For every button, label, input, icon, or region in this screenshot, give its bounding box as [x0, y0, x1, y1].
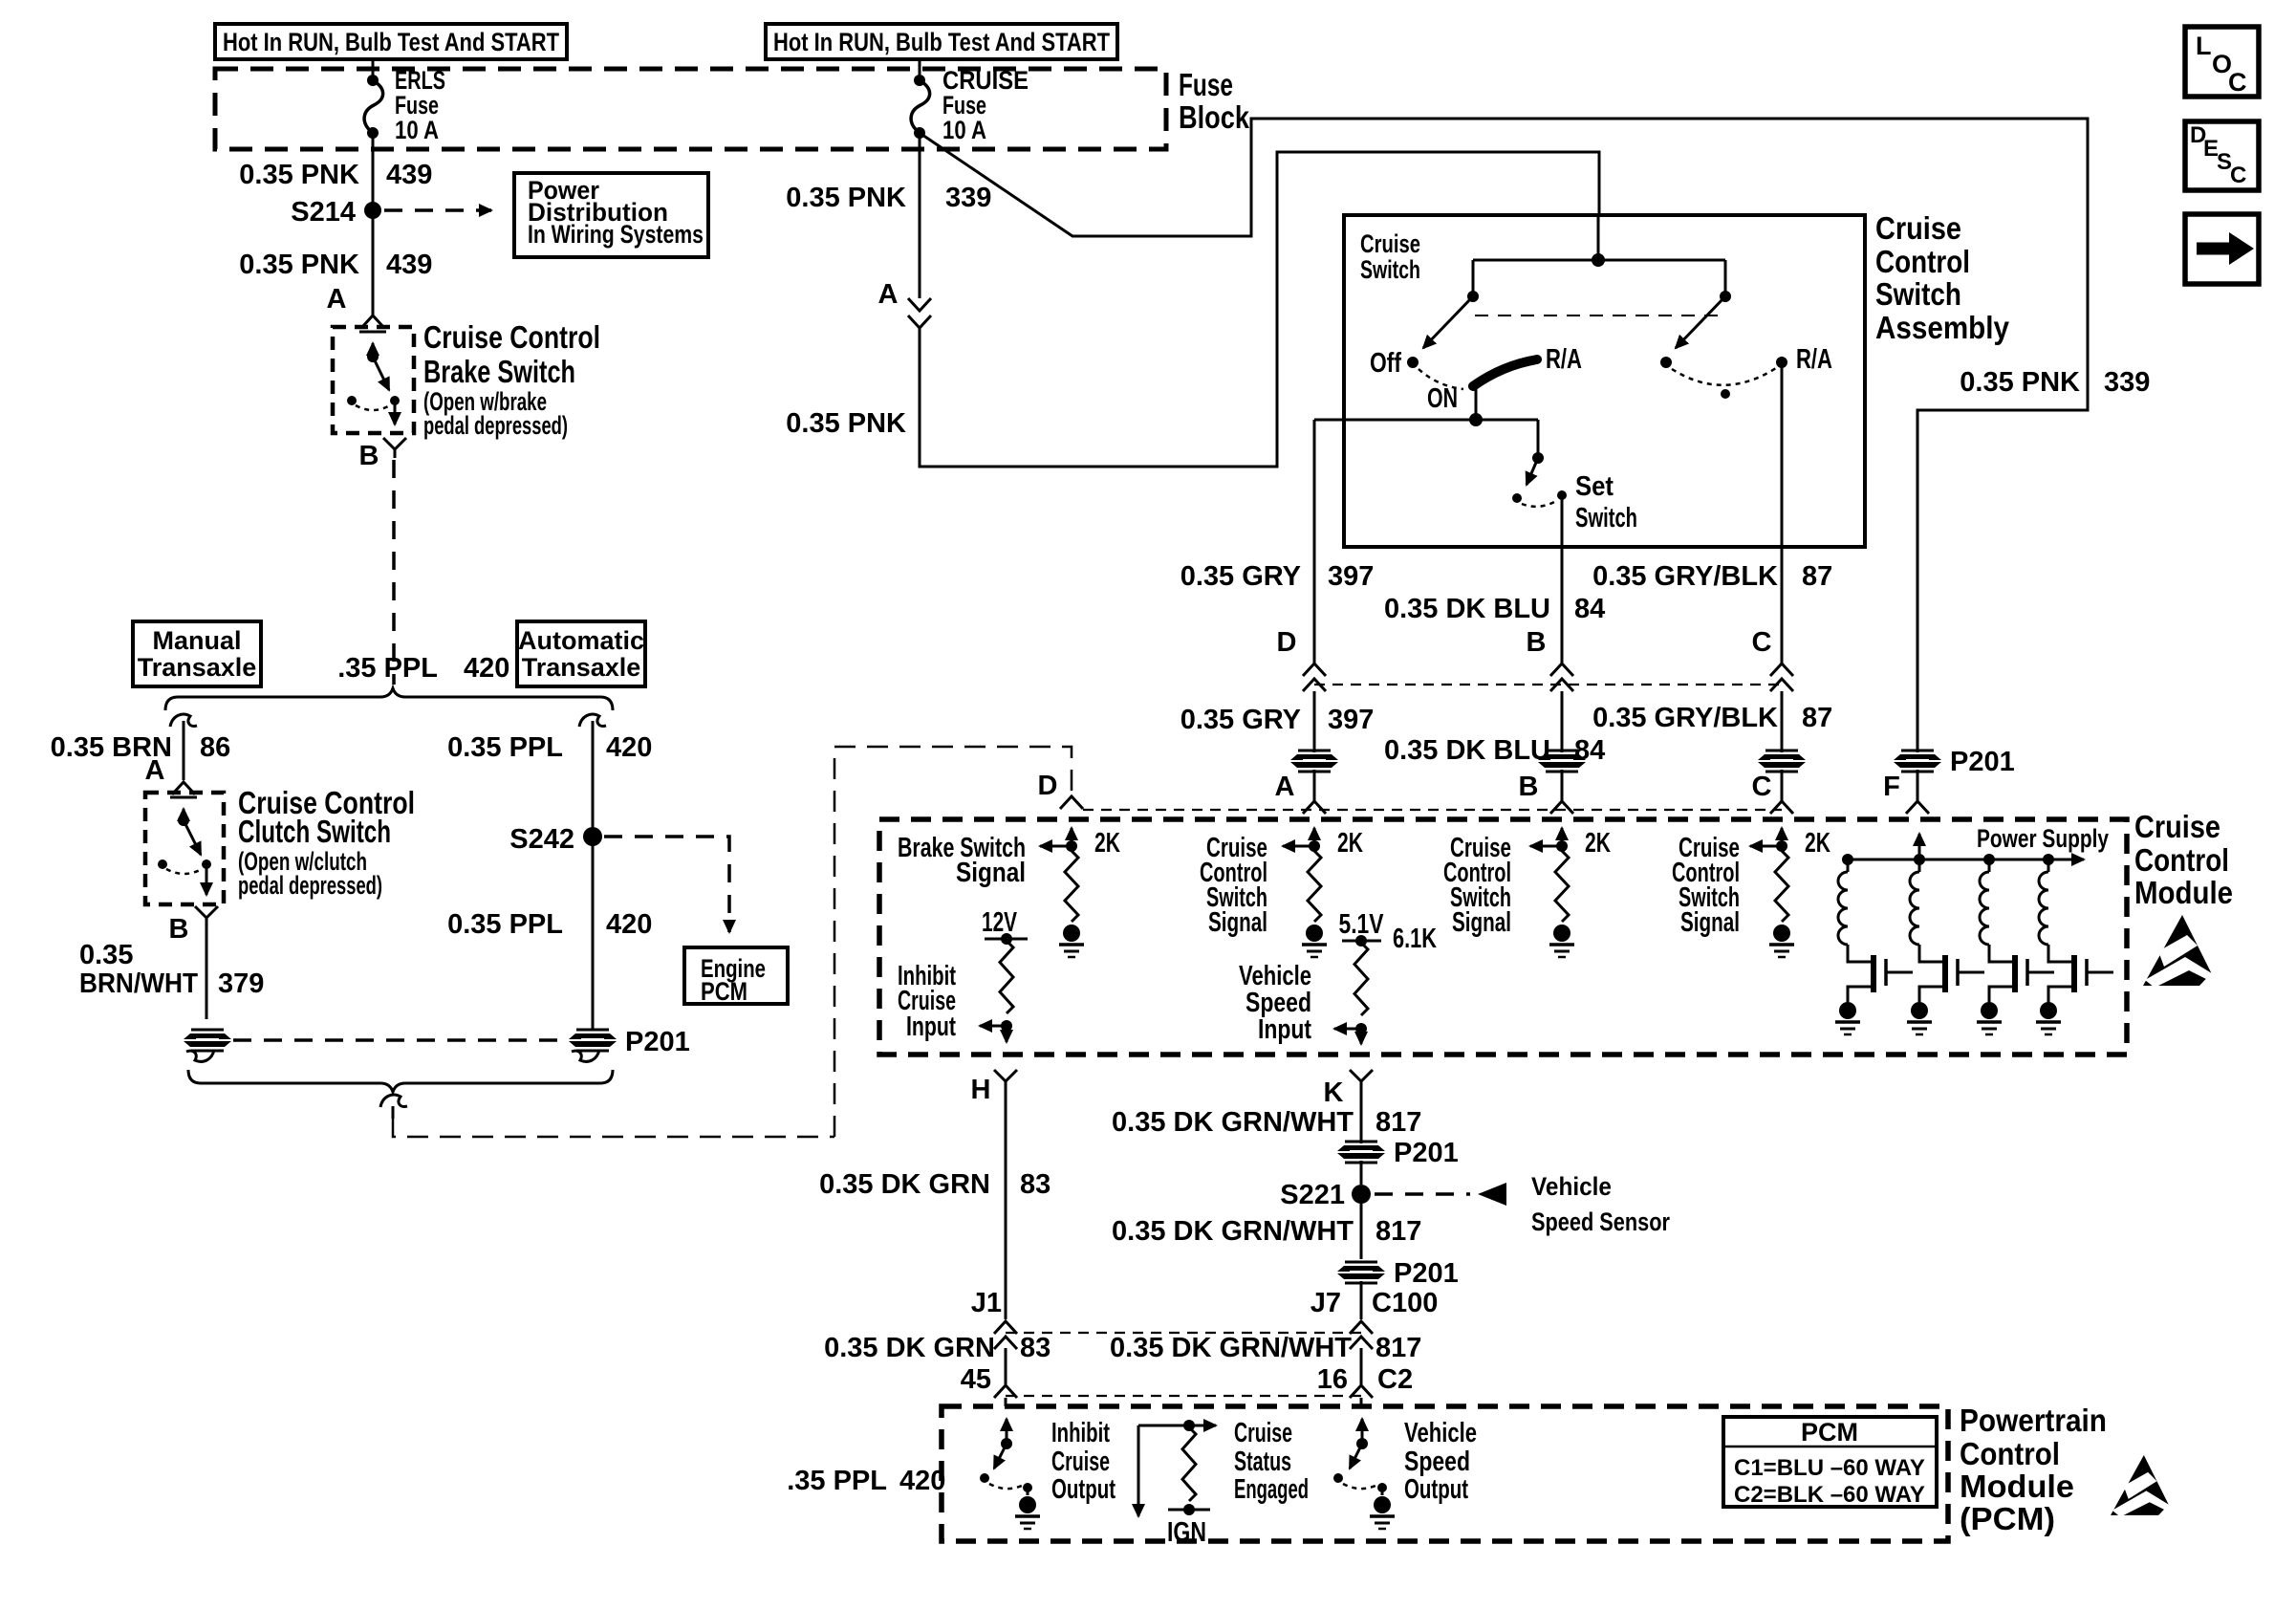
svg-text:Signal: Signal [1208, 907, 1267, 938]
svg-text:C2: C2 [1377, 1364, 1413, 1395]
svg-text:0.35 DK GRN/WHT: 0.35 DK GRN/WHT [1110, 1333, 1352, 1363]
svg-text:420: 420 [464, 653, 509, 684]
dashed wire S242 to Engine PCM [604, 837, 729, 932]
svg-text:Cruise: Cruise [1234, 1418, 1292, 1448]
connector P201 in K (1) [1337, 1142, 1385, 1163]
fuse block dashed box [215, 69, 1166, 149]
svg-text:Speed Sensor: Speed Sensor [1531, 1207, 1670, 1236]
connector P201 in K (2) [1337, 1262, 1385, 1283]
svg-text:84: 84 [1574, 594, 1605, 624]
svg-text:16: 16 [1317, 1364, 1348, 1395]
mechanical link dashed [1475, 315, 1721, 316]
svg-text:Transaxle: Transaxle [138, 653, 257, 682]
svg-text:L: L [2196, 32, 2212, 60]
connector chevrons A [908, 298, 931, 311]
svg-text:0.35 GRY/BLK: 0.35 GRY/BLK [1592, 561, 1778, 592]
svg-text:Signal: Signal [1680, 907, 1740, 938]
wire break curl (automatic branch) [579, 714, 606, 727]
wire: feed into switch [1597, 215, 1600, 260]
svg-text:87: 87 [1802, 561, 1832, 592]
cruise control switch assembly box [1344, 215, 1865, 547]
svg-text:S221: S221 [1280, 1180, 1345, 1210]
label box: Automatic Transaxle [517, 621, 645, 686]
coil + MOSFET unit at 2008 [1914, 854, 1925, 865]
svg-text:Off: Off [1370, 348, 1401, 379]
svg-text:Fuse: Fuse [1179, 67, 1233, 102]
module pin B: 2K pull-up resistor [1561, 828, 1564, 846]
svg-text:pedal depressed): pedal depressed) [423, 411, 568, 440]
PCM switch: vehicle speed output [1361, 1419, 1364, 1444]
svg-text:6.1K: 6.1K [1393, 924, 1437, 954]
svg-text:A: A [145, 755, 165, 786]
svg-text:B: B [1527, 627, 1547, 658]
svg-text:J1: J1 [971, 1288, 1002, 1318]
svg-text:Speed: Speed [1404, 1447, 1470, 1477]
clutch switch contacts [170, 796, 197, 799]
thin dashed connector line (D-C) [1314, 684, 1782, 685]
stub wires + chevrons into module [1313, 770, 1316, 801]
svg-text:S242: S242 [509, 824, 574, 855]
coil + MOSFET unit at 2081 [1983, 854, 1995, 865]
label box: Engine PCM [684, 947, 788, 1004]
wire: internal top bus [1473, 259, 1725, 262]
connector chevrons C2 [994, 1385, 1017, 1398]
svg-text:C1=BLU –60 WAY: C1=BLU –60 WAY [1734, 1455, 1925, 1481]
left ON/OFF switch [1472, 260, 1475, 296]
wire: ON contact down to bus [1475, 386, 1478, 420]
icon box arrow [2185, 214, 2259, 284]
module pin D: 2K pull-up resistor [1071, 828, 1073, 846]
svg-text:Cruise: Cruise [2134, 809, 2220, 844]
svg-text:Manual: Manual [152, 626, 241, 655]
svg-text:Block: Block [1179, 99, 1250, 135]
connector P201 (right) [569, 1030, 617, 1051]
svg-text:86: 86 [200, 732, 230, 763]
cruise control clutch switch dashed box [145, 793, 224, 904]
brace over transaxle branches [165, 688, 613, 710]
svg-text:K: K [1324, 1077, 1344, 1108]
svg-text:ON: ON [1427, 383, 1458, 414]
ESD symbol (PCM) [2111, 1455, 2178, 1517]
svg-text:Module: Module [1960, 1469, 2074, 1504]
svg-text:0.35 PNK: 0.35 PNK [239, 160, 359, 190]
svg-text:420: 420 [899, 1466, 945, 1496]
icon box DESC [2185, 121, 2259, 190]
wire: lower bus to D and set switch [1314, 419, 1538, 422]
svg-text:817: 817 [1375, 1107, 1421, 1138]
svg-text:817: 817 [1375, 1216, 1421, 1247]
svg-text:.35 PPL: .35 PPL [787, 1466, 887, 1496]
svg-text:B: B [169, 914, 189, 945]
svg-text:0.35 PNK: 0.35 PNK [786, 183, 906, 213]
svg-text:F: F [1883, 772, 1900, 802]
svg-text:C100: C100 [1372, 1288, 1438, 1318]
thin dashed connector line (A-C) [1083, 809, 1782, 811]
svg-text:Inhibit: Inhibit [1051, 1418, 1110, 1448]
svg-text:C: C [2230, 163, 2246, 188]
svg-text:0.35 DK BLU: 0.35 DK BLU [1384, 594, 1550, 624]
svg-text:Clutch Switch: Clutch Switch [238, 814, 391, 849]
coil + MOSFET unit at 2143 [2043, 854, 2054, 865]
wire: S214 down to brake switch [372, 210, 375, 315]
wire: automatic branch down [592, 721, 595, 1030]
svg-text:0.35 DK BLU: 0.35 DK BLU [1384, 735, 1550, 766]
svg-text:Transaxle: Transaxle [522, 653, 641, 682]
svg-text:2K: 2K [1585, 828, 1611, 859]
svg-text:Hot In RUN, Bulb Test And STAR: Hot In RUN, Bulb Test And START [773, 28, 1110, 56]
svg-text:C: C [1752, 627, 1772, 658]
svg-text:.35 PPL: .35 PPL [337, 653, 438, 684]
svg-text:0.35 GRY: 0.35 GRY [1180, 561, 1301, 592]
label box: Hot In RUN, Bulb Test And START (left) [215, 24, 567, 59]
svg-text:420: 420 [606, 732, 652, 763]
svg-text:0.35 GRY: 0.35 GRY [1180, 705, 1301, 735]
svg-text:P201: P201 [1950, 747, 2015, 777]
svg-text:Brake Switch: Brake Switch [423, 354, 575, 389]
svg-text:0.35 PNK: 0.35 PNK [786, 408, 906, 439]
wire: fuse to S214 [372, 133, 375, 210]
svg-text:0.35: 0.35 [79, 940, 133, 970]
svg-text:C2=BLK –60 WAY: C2=BLK –60 WAY [1734, 1482, 1925, 1508]
connector chevron A [361, 315, 384, 328]
svg-text:Status: Status [1234, 1447, 1291, 1477]
svg-text:J7: J7 [1310, 1288, 1341, 1318]
svg-text:Input: Input [906, 1012, 956, 1042]
svg-text:0.35 DK GRN/WHT: 0.35 DK GRN/WHT [1112, 1107, 1354, 1138]
chevron D module [1060, 796, 1083, 809]
ESD symbol (module) [2143, 915, 2223, 988]
svg-text:339: 339 [2104, 367, 2150, 398]
svg-text:Set: Set [1575, 471, 1614, 502]
svg-text:Output: Output [1404, 1474, 1468, 1505]
svg-text:Power Supply: Power Supply [1977, 824, 2109, 853]
svg-text:A: A [1275, 772, 1295, 802]
power supply bus [1918, 834, 1921, 859]
dashed arrow to Power Distribution [384, 208, 491, 212]
module pin A: 2K pull-up resistor [1313, 828, 1316, 846]
wires down to C2 connector [1005, 1348, 1007, 1384]
svg-text:83: 83 [1020, 1169, 1051, 1200]
svg-text:Engaged: Engaged [1234, 1474, 1309, 1505]
label box: Power Distribution In Wiring Systems [514, 173, 708, 257]
label box: Manual Transaxle [133, 621, 261, 686]
svg-text:Hot In RUN, Bulb Test And STAR: Hot In RUN, Bulb Test And START [223, 28, 559, 56]
svg-text:45: 45 [961, 1364, 991, 1395]
connector fork B [383, 438, 406, 449]
svg-text:Signal: Signal [1452, 907, 1511, 938]
svg-text:S214: S214 [291, 197, 356, 228]
svg-text:B: B [1519, 772, 1539, 802]
svg-text:(PCM): (PCM) [1960, 1501, 2055, 1536]
svg-text:0.35 PPL: 0.35 PPL [447, 732, 563, 763]
PCM switch: inhibit cruise output [1006, 1419, 1008, 1444]
svg-text:87: 87 [1802, 703, 1832, 733]
svg-text:439: 439 [386, 160, 432, 190]
svg-text:0.35 PNK: 0.35 PNK [239, 250, 359, 280]
wire: A down and over to cruise switch [920, 152, 1599, 467]
brake switch contacts [359, 331, 386, 334]
wire: R/A contact down (C column) [1781, 362, 1784, 664]
svg-text:0.35 GRY/BLK: 0.35 GRY/BLK [1592, 703, 1778, 733]
wire: cruise fuse down to connector A [919, 133, 921, 298]
contact arc Off-ON [1419, 369, 1463, 389]
svg-text:Vehicle: Vehicle [1404, 1418, 1477, 1448]
dashed wire B down to transaxle brace [392, 460, 396, 685]
wires to lens row [1313, 691, 1316, 752]
svg-text:PCM: PCM [701, 977, 747, 1006]
wire break curl (manual branch) [170, 714, 197, 727]
thin dashed connector line C2 [1006, 1395, 1361, 1397]
svg-text:0.35 PPL: 0.35 PPL [447, 909, 563, 940]
dashed link between P201 halves [233, 1038, 567, 1042]
svg-text:Powertrain: Powertrain [1960, 1403, 2107, 1438]
cruise control brake switch dashed box [333, 327, 414, 433]
svg-text:C: C [1752, 772, 1772, 802]
dashed arrow to Vehicle Speed Sensor [1375, 1192, 1470, 1196]
svg-text:R/A: R/A [1796, 344, 1832, 375]
svg-text:P201: P201 [1394, 1138, 1459, 1168]
connector lenses A B C F [1290, 751, 1338, 772]
label box: Hot In RUN, Bulb Test And START (right) [766, 24, 1117, 59]
svg-text:Switch: Switch [1875, 276, 1961, 312]
pin K fork [1350, 1070, 1373, 1081]
IGN pull-up network [1138, 1425, 1187, 1427]
svg-text:H: H [971, 1075, 991, 1105]
wire H column [1005, 1090, 1007, 1319]
svg-text:84: 84 [1574, 735, 1605, 766]
connector chevrons J1 J7 (C100) [994, 1321, 1017, 1334]
coil + MOSFET unit at 1933 [1842, 854, 1853, 865]
svg-text:P201: P201 [1394, 1258, 1459, 1289]
wire: set contact down (B column) [1561, 495, 1564, 664]
svg-text:D: D [1277, 627, 1297, 658]
svg-text:0.35 PNK: 0.35 PNK [1960, 367, 2080, 398]
svg-text:D: D [1038, 771, 1058, 801]
fuse F1 ERLS 10A [367, 75, 379, 86]
svg-text:420: 420 [606, 909, 652, 940]
thin dashed connector line C100 [1006, 1332, 1361, 1334]
svg-text:Cruise Control: Cruise Control [423, 319, 600, 355]
dashed route from brace to module pin D [393, 1119, 834, 1137]
svg-text:0.35 DK GRN: 0.35 DK GRN [824, 1333, 995, 1363]
svg-text:BRN/WHT: BRN/WHT [79, 968, 198, 999]
svg-text:10 A: 10 A [942, 116, 986, 144]
svg-text:12V: 12V [982, 907, 1017, 938]
svg-text:In Wiring Systems: In Wiring Systems [528, 220, 704, 249]
connector fork B clutch [195, 906, 218, 918]
svg-text:2K: 2K [1805, 828, 1830, 859]
svg-text:IGN: IGN [1167, 1517, 1206, 1548]
set switch [1537, 420, 1540, 458]
svg-text:Output: Output [1051, 1474, 1116, 1505]
svg-text:439: 439 [386, 250, 432, 280]
svg-text:83: 83 [1020, 1333, 1051, 1363]
svg-text:Module: Module [2134, 875, 2233, 910]
svg-text:397: 397 [1328, 561, 1374, 592]
powertrain control module dashed box [942, 1406, 1948, 1541]
svg-text:339: 339 [945, 183, 991, 213]
svg-text:Cruise: Cruise [1875, 210, 1961, 246]
icon box LOC [2185, 27, 2259, 97]
right R/A switch [1724, 260, 1727, 296]
wire: clutch B down to P201 [206, 926, 208, 1019]
svg-text:C: C [2228, 68, 2247, 97]
wire: D column inside box [1313, 420, 1316, 664]
svg-text:Cruise: Cruise [1360, 229, 1420, 258]
svg-text:Signal: Signal [956, 858, 1026, 888]
svg-text:PCM: PCM [1801, 1418, 1858, 1447]
cruise control module dashed box [879, 819, 2127, 1055]
wire below S221 [1360, 1204, 1363, 1259]
svg-text:A: A [327, 284, 347, 315]
svg-text:2K: 2K [1337, 828, 1363, 859]
svg-text:Cruise: Cruise [1051, 1447, 1110, 1477]
svg-text:Assembly: Assembly [1875, 310, 2010, 345]
svg-text:2K: 2K [1094, 828, 1120, 859]
svg-text:Control: Control [1875, 244, 1970, 279]
fuse F2 CRUISE 10A [914, 75, 925, 86]
svg-text:Control: Control [1960, 1436, 2060, 1471]
svg-text:379: 379 [218, 968, 264, 999]
svg-text:A: A [878, 279, 899, 310]
wire break curl (below brace) [380, 1095, 407, 1107]
svg-text:0.35 DK GRN/WHT: 0.35 DK GRN/WHT [1112, 1216, 1354, 1247]
connector chevrons D B C [1303, 664, 1326, 676]
module pin C: 2K pull-up resistor [1781, 828, 1784, 846]
svg-text:R/A: R/A [1546, 344, 1582, 375]
brace under P201 pair [188, 1070, 613, 1092]
connector P201 (left) [184, 1030, 231, 1051]
svg-text:Input: Input [1258, 1014, 1311, 1045]
wire: cruise fuse diagonal feed to right [920, 119, 2088, 752]
svg-text:Control: Control [2134, 842, 2229, 878]
svg-text:817: 817 [1375, 1333, 1421, 1363]
svg-text:0.35 DK GRN: 0.35 DK GRN [819, 1169, 990, 1200]
thick R/A arc [1473, 359, 1537, 386]
svg-text:Vehicle: Vehicle [1531, 1172, 1612, 1201]
svg-text:10 A: 10 A [395, 116, 439, 144]
svg-text:Switch: Switch [1360, 255, 1420, 284]
svg-text:P201: P201 [625, 1027, 690, 1057]
svg-text:Automatic: Automatic [518, 626, 644, 655]
wire to S221 [1360, 1161, 1363, 1185]
connector chevron A clutch [172, 782, 195, 794]
svg-text:397: 397 [1328, 705, 1374, 735]
svg-text:pedal depressed): pedal depressed) [238, 871, 382, 900]
wire K column upper [1360, 1090, 1363, 1143]
pin H fork [994, 1070, 1017, 1081]
svg-text:Switch: Switch [1575, 503, 1637, 533]
PCM connector info box [1723, 1417, 1937, 1507]
svg-text:B: B [359, 441, 379, 471]
wire to C100 [1360, 1281, 1363, 1319]
wire: manual branch down [183, 721, 185, 780]
